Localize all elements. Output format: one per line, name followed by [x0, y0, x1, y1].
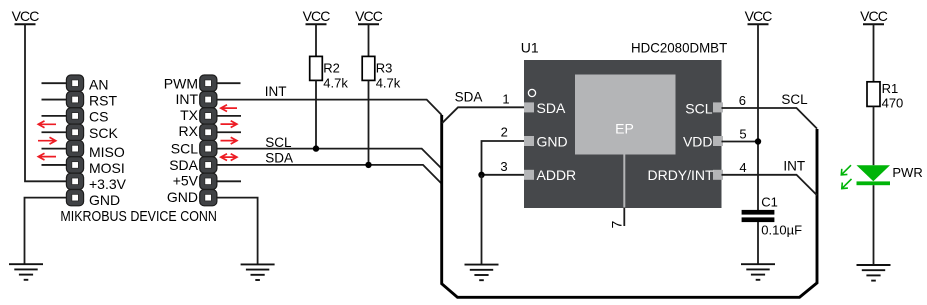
svg-text:0.10µF: 0.10µF [761, 223, 802, 238]
svg-text:U1: U1 [521, 39, 539, 55]
svg-text:GND: GND [89, 192, 120, 208]
svg-text:SDA: SDA [169, 157, 198, 173]
svg-text:AN: AN [89, 76, 108, 92]
svg-text:+3.3V: +3.3V [89, 176, 127, 192]
svg-text:EP: EP [615, 121, 634, 137]
svg-text:MIKROBUS DEVICE CONN: MIKROBUS DEVICE CONN [60, 208, 217, 225]
svg-text:R1: R1 [882, 81, 899, 96]
svg-text:3: 3 [500, 159, 507, 174]
svg-text:4.7k: 4.7k [323, 76, 348, 91]
svg-text:RX: RX [179, 123, 199, 139]
svg-text:MISO: MISO [89, 144, 125, 160]
svg-text:PWR: PWR [892, 165, 922, 180]
svg-text:+5V: +5V [173, 173, 199, 189]
svg-text:SCL: SCL [171, 141, 198, 157]
svg-text:INT: INT [175, 91, 198, 107]
svg-text:GND: GND [167, 189, 198, 205]
svg-text:VDD: VDD [683, 134, 713, 150]
svg-text:R2: R2 [323, 61, 340, 76]
svg-text:VCC: VCC [12, 8, 40, 24]
svg-text:470: 470 [882, 95, 904, 110]
svg-text:DRDY/INT: DRDY/INT [647, 167, 714, 183]
svg-text:SCK: SCK [89, 125, 118, 141]
svg-text:SCL: SCL [265, 135, 292, 150]
svg-text:SCL: SCL [685, 100, 712, 116]
svg-text:1: 1 [502, 91, 509, 106]
svg-text:2: 2 [501, 125, 508, 140]
svg-text:VCC: VCC [303, 8, 331, 24]
svg-text:SCL: SCL [781, 92, 808, 107]
svg-text:R3: R3 [376, 61, 393, 76]
svg-text:INT: INT [265, 84, 287, 99]
svg-text:7: 7 [608, 221, 624, 229]
svg-text:SDA: SDA [265, 151, 293, 166]
svg-text:C1: C1 [761, 194, 778, 209]
svg-text:4: 4 [739, 160, 746, 175]
svg-text:CS: CS [89, 109, 108, 125]
svg-text:PWM: PWM [164, 76, 198, 92]
svg-text:ADDR: ADDR [537, 167, 577, 183]
svg-text:5: 5 [739, 126, 746, 141]
svg-text:SDA: SDA [455, 90, 483, 105]
svg-text:GND: GND [537, 133, 568, 149]
svg-text:TX: TX [180, 107, 199, 123]
svg-text:SDA: SDA [537, 100, 566, 116]
svg-text:RST: RST [89, 93, 117, 109]
svg-text:MOSI: MOSI [89, 160, 125, 176]
svg-text:HDC2080DMBT: HDC2080DMBT [631, 39, 728, 55]
svg-text:VCC: VCC [860, 8, 888, 24]
svg-text:INT: INT [783, 159, 805, 174]
svg-text:6: 6 [739, 93, 746, 108]
svg-text:VCC: VCC [745, 8, 773, 24]
svg-text:VCC: VCC [355, 8, 383, 24]
svg-text:4.7k: 4.7k [376, 76, 401, 91]
